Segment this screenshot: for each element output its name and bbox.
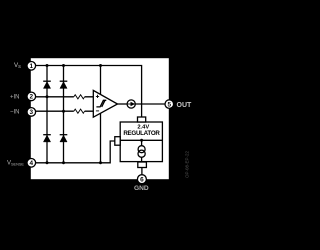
svg-text:5: 5 — [168, 101, 172, 108]
resistor R2 (-IN series) — [74, 109, 85, 113]
regulator top terminal — [138, 117, 146, 122]
IC outline box (white body) — [31, 58, 169, 179]
wire: op-amp output to current source — [118, 103, 128, 105]
resistor R1 (+IN series) — [74, 95, 85, 99]
svg-text:GND: GND — [134, 185, 149, 192]
svg-text:OUT: OUT — [177, 102, 193, 109]
wire: -IN line from pin 3 to op-amp — [35, 110, 93, 112]
wire: op-amp V+ supply stub — [100, 66, 102, 95]
wire: output line to pin 5 — [135, 103, 165, 105]
svg-text:REGULATOR: REGULATOR — [123, 130, 160, 137]
regulator left terminal — [115, 137, 120, 146]
wire: regulator bottom to GND pin — [141, 168, 143, 176]
wire: right clamp branch (-IN) — [63, 66, 65, 163]
svg-text:6: 6 — [140, 177, 144, 184]
page background — [0, 0, 200, 250]
pin 5 (OUT) — [165, 100, 174, 109]
svg-text:4: 4 — [30, 160, 34, 167]
regulator block outline — [120, 122, 162, 162]
pin 2 (+IN) — [27, 92, 36, 101]
op-amp U1 — [93, 90, 117, 117]
svg-text:+IN: +IN — [10, 94, 20, 100]
wire: op-amp V- supply stub — [100, 112, 102, 163]
diode D4 (right lower clamp) — [60, 135, 68, 142]
diode D2 (right to V+) — [60, 81, 68, 88]
svg-text:1: 1 — [30, 63, 34, 70]
pin 1 (VS) — [27, 62, 36, 71]
svg-text:3: 3 — [30, 109, 34, 116]
wire: +IN line from pin 2 to op-amp — [35, 96, 93, 98]
wire: V+ top rail from pin 1 to regulator input — [36, 66, 142, 118]
svg-text:2: 2 — [30, 94, 34, 101]
pin 4 (V sense) — [27, 159, 36, 168]
diode D3 (left lower clamp) — [43, 135, 51, 142]
regulator divider line — [120, 139, 162, 141]
regulator bottom terminal — [138, 162, 147, 168]
pin 6 (GND) — [137, 175, 146, 184]
wire: left clamp branch (+IN) — [46, 66, 48, 163]
wire: V- bottom rail from pin 4 to regulator left terminal — [35, 141, 114, 163]
junction dots — [46, 64, 49, 67]
svg-text:OP-08-EP-22: OP-08-EP-22 — [185, 150, 190, 178]
current source I1 (circle with arrow) — [127, 100, 135, 108]
pin 3 (-IN) — [27, 108, 36, 117]
svg-text:−IN: −IN — [10, 110, 20, 116]
diode D1 (left to V+) — [43, 81, 51, 88]
current source pair (double circles) — [138, 140, 145, 162]
